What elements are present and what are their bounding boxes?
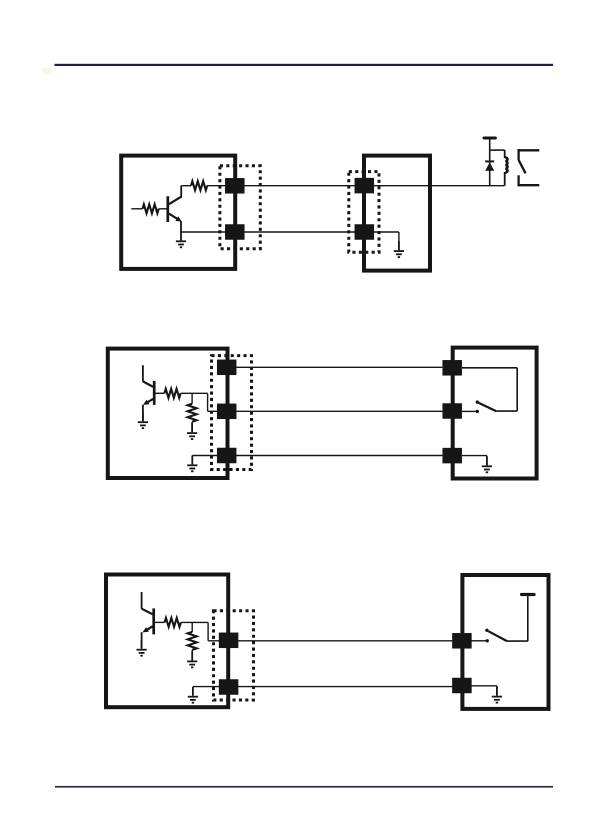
ground common left (188, 687, 198, 703)
wire row1 (207, 185, 504, 187)
ground emitter Q2 (138, 412, 148, 428)
terminal 13 (452, 633, 472, 649)
wire pulldown bottom lead (191, 422, 193, 432)
box U1 controller (left) (121, 156, 235, 269)
terminal 14 (452, 678, 472, 694)
wire corner drop (207, 393, 209, 411)
wire pulldown lead (191, 393, 193, 404)
wire base run (181, 392, 208, 394)
wire row2 (193, 686, 453, 688)
relay contact K1 (518, 149, 540, 186)
diode D1 (485, 161, 494, 170)
terminal 7 (217, 448, 237, 464)
switch arm K2 (476, 400, 497, 411)
wire corner drop (207, 622, 209, 640)
terminal 6 (217, 404, 237, 420)
ground common left (187, 455, 197, 471)
wire pulldown bottom lead (191, 650, 193, 660)
ground pulldown (187, 423, 197, 439)
wire contact stub (471, 639, 489, 642)
terminal 3 (355, 178, 375, 194)
box U4 unit (right) (453, 348, 537, 479)
terminal 12 (219, 679, 239, 695)
terminal 5 (217, 360, 237, 376)
terminal block TB1 (dashed) (220, 166, 260, 249)
switch arm K3 (485, 629, 507, 642)
resistor R6 pulldown (188, 632, 197, 650)
wire row2 (181, 231, 399, 233)
terminal block TB4 (dashed) (214, 611, 254, 700)
box U2 unit (right) (364, 156, 430, 271)
resistor R4 pulldown (188, 404, 197, 422)
terminal 2 (225, 224, 245, 240)
terminal 11 (219, 633, 239, 649)
terminal 1 (225, 178, 245, 194)
transistor Q3 (142, 592, 154, 648)
wire ground run right (462, 456, 487, 466)
terminal 10 (442, 448, 462, 464)
wire base run (181, 621, 208, 623)
ground unit right (492, 687, 502, 703)
wire relay left branch (489, 140, 491, 186)
ground emitter Q3 (137, 640, 147, 656)
wire ground run right (471, 686, 497, 696)
wire base lead (156, 392, 165, 394)
wire power drop (507, 596, 528, 641)
terminal block TB3 (dashed) (212, 356, 252, 470)
box U6 unit (right) (462, 575, 548, 709)
terminal 8 (442, 360, 462, 376)
wire base lead (159, 208, 167, 210)
resistor R3 base (164, 389, 180, 398)
wire row2 (208, 410, 443, 412)
terminal block TB2 (dashed) (349, 172, 379, 253)
wire bent loop (462, 368, 517, 411)
power bar V2 (522, 593, 534, 596)
ground pulldown (187, 652, 197, 668)
transistor Q1 (168, 186, 182, 233)
box U5 controller (left) (106, 575, 228, 708)
wire row3 (192, 455, 442, 457)
smudge (42, 68, 52, 75)
wire collector lead (181, 185, 191, 187)
ground unit right (482, 456, 492, 472)
wire base input stub (131, 208, 142, 210)
wire row1 (208, 640, 452, 642)
top rule (55, 64, 554, 66)
ground emitter (176, 231, 186, 247)
coil L1 relay (505, 150, 508, 186)
resistor R2 collector (191, 181, 207, 190)
wire relay loop top (490, 149, 505, 151)
box U3 controller (left) (108, 349, 228, 478)
power bar V1 (484, 137, 495, 140)
wire contact stub (462, 410, 479, 413)
resistor R5 base (165, 618, 181, 627)
wire ground drop (398, 232, 400, 250)
terminal 4 (355, 224, 375, 240)
bottom rule (55, 786, 553, 788)
terminal 9 (442, 403, 462, 419)
resistor R1 base (143, 204, 159, 213)
ground unit (394, 241, 404, 257)
wire row1 (236, 366, 442, 368)
transistor Q2 (143, 365, 154, 421)
wire base lead (155, 621, 165, 623)
wire pulldown lead (191, 622, 193, 632)
